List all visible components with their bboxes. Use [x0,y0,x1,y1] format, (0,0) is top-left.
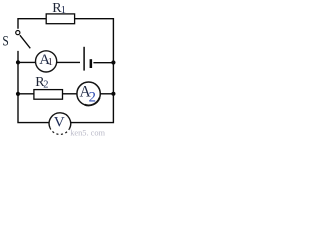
switch S contact circle [16,30,20,34]
ammeter A2 [77,82,100,105]
svg-text:ken5. com: ken5. com [70,128,105,137]
svg-text:1: 1 [48,56,54,68]
battery short thick plate [90,59,93,68]
voltmeter V dashed bottom arc [50,128,69,135]
wire left dot to R2 [18,93,34,95]
wire A2 to right rail [100,93,113,95]
wire top-right + right side down to bottom-right corner + bottom wire right part [71,19,113,123]
wire battery to right rail [93,62,113,64]
wire A1 to battery [57,61,80,63]
wire R2 to A2 [62,93,77,95]
resistor R2 [34,90,63,100]
ammeter A1 [36,51,57,72]
node junction right A2 branch [111,92,115,96]
node junction right battery branch [111,60,115,64]
wire left dot to A1 [18,61,36,63]
node junction left A1-branch [16,60,20,64]
ammeter A2 bottom arc (heavier in scan) [85,98,100,106]
wire bottom-left + left side up to switch bottom [18,51,49,123]
voltmeter V solid arc [49,113,71,129]
svg-text:S: S [2,34,8,50]
switch S lever [20,35,30,48]
node junction left R2-branch [16,92,20,96]
battery long plate [83,47,85,71]
svg-text:1: 1 [61,5,66,16]
svg-text:2: 2 [43,80,48,91]
wire top-left: left stub down from corner + top wire to R1 [18,19,47,29]
resistor R1 [46,14,74,24]
svg-text:V: V [54,113,65,130]
